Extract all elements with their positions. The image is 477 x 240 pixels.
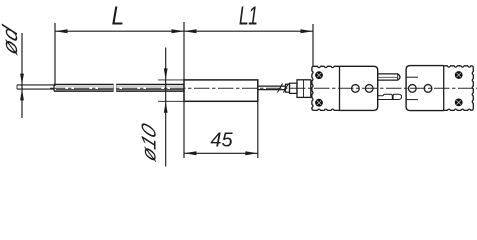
dimension 45 line [184, 152, 258, 154]
jack screw bottom [455, 99, 463, 107]
arrow L right [172, 29, 185, 33]
svg-text:L: L [111, 2, 124, 31]
cable wire bottom line [258, 89, 286, 91]
dimension o10 line [165, 48, 167, 167]
ferrule A [286, 84, 290, 92]
plug bottom pin crimp [378, 94, 402, 99]
probe tip element bottom line [17, 88, 54, 90]
arrow L left [55, 29, 68, 33]
plug cap bottom scalloped edge [313, 109, 339, 110]
extension line L-L1 boundary [183, 22, 185, 80]
dimension L line [55, 30, 184, 32]
jack cap top scalloped edge [444, 66, 474, 68]
plug main body [340, 66, 378, 110]
plug contact hole left [352, 85, 360, 93]
arrow L1 right [301, 29, 314, 33]
dimension 45 extension left [183, 101, 185, 158]
extension line left of L [54, 23, 56, 86]
jack cap right knurled edge [472, 68, 473, 109]
sheath left end cap [53, 84, 55, 91]
arrow 45 left [184, 151, 197, 155]
probe tip end cap [16, 85, 18, 89]
cable break marks [278, 84, 289, 93]
sheath break end ticks [114, 84, 117, 91]
dimension L1 line [184, 30, 313, 32]
svg-text:45: 45 [210, 130, 233, 152]
sheath inner bottom wall [56, 89, 184, 91]
jack screw top [455, 71, 463, 79]
dimension od line [21, 33, 23, 118]
probe tip element top line [17, 84, 54, 86]
centerline axis [50, 87, 477, 89]
arrow L1 left [184, 29, 197, 33]
jack body [406, 66, 444, 111]
dimension 45 extension right [257, 101, 259, 158]
plug screw top [315, 71, 323, 79]
svg-text:L1: L1 [239, 1, 258, 30]
jack contact hole left [408, 85, 416, 93]
plug screw bottom [315, 99, 323, 107]
plug cap body boundary [339, 66, 341, 110]
ferrule B [290, 83, 298, 93]
arrow od bottom [20, 89, 24, 100]
plug top pin [378, 74, 400, 80]
handle body o10 [184, 80, 258, 101]
plug top pin mid line [378, 76, 398, 78]
jack cap bottom scalloped edge [444, 108, 474, 110]
label o10 rotated [138, 120, 160, 165]
jack cap body boundary [443, 66, 445, 111]
label od rotated [0, 22, 22, 59]
plug clamp cap left knurled edge [312, 66, 314, 110]
plug top pin step line [397, 74, 399, 80]
arrow od top [20, 74, 24, 85]
handle top edge extension for o10 [158, 79, 184, 81]
jack contact hole right [424, 85, 432, 93]
sheath tube outer bottom line [54, 90, 184, 92]
jack socket line top [406, 76, 418, 78]
sheath tube outer top line [54, 83, 184, 85]
arrow 45 right [245, 151, 257, 155]
jack socket line bottom [406, 99, 418, 101]
extension line right of L1 [312, 24, 314, 66]
bushing inner line [303, 80, 305, 98]
sheath tube inner wall lines [56, 85, 184, 87]
cable bushing [297, 80, 311, 98]
plug cap top scalloped edge [313, 66, 339, 67]
arrow o10 top [164, 68, 168, 79]
arrow o10 bottom [164, 102, 168, 113]
cable wire top line [258, 85, 286, 87]
handle bottom edge extension for o10 [158, 100, 184, 102]
plug contact hole right [365, 85, 373, 93]
